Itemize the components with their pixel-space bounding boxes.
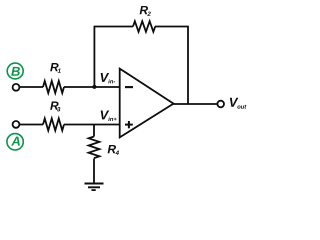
resistor R4 [89, 137, 100, 159]
wire feedback right vertical [187, 27, 189, 105]
label R3 [50, 102, 58, 110]
resistor R3 [43, 119, 64, 131]
wire op-amp output [173, 103, 218, 105]
wire feedback top left [94, 26, 133, 28]
label R2 [140, 6, 148, 14]
terminal A [7, 134, 23, 150]
label Vin- [101, 73, 109, 82]
wire A pin to R3 [20, 124, 43, 126]
label R1 [50, 63, 58, 71]
wire feedback left vertical [93, 27, 95, 88]
wire R1 to op-amp inverting input [64, 86, 120, 88]
wire R3 to op-amp non-inverting input [64, 124, 120, 126]
terminal Vout pin [217, 101, 224, 108]
terminal A pin [13, 121, 20, 128]
terminal B [7, 63, 23, 79]
wire branch down to R4 [93, 125, 95, 137]
op-amp U1 [120, 69, 174, 138]
label Vout [230, 98, 238, 107]
resistor R1 [43, 81, 64, 93]
wire B pin to R1 [20, 86, 43, 88]
terminal B pin [13, 84, 20, 91]
wire R4 to ground [93, 159, 95, 184]
resistor R2 [133, 21, 155, 32]
label Vin+ [101, 110, 109, 119]
label R4 [108, 145, 116, 153]
ground [85, 184, 104, 191]
wire feedback top right [155, 26, 189, 28]
node Vin- junction [92, 85, 96, 89]
